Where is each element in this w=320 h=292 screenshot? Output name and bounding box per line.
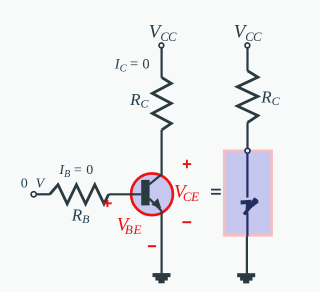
label IB = 0 xyxy=(58,163,93,180)
wire box to ground (right) xyxy=(246,237,248,274)
transistor Q1 collector lead xyxy=(149,174,161,184)
transistor Q1 emitter arrow xyxy=(151,198,161,208)
node VCC label (left) xyxy=(149,22,177,44)
label 0 V xyxy=(21,177,46,192)
label VCE xyxy=(174,182,199,204)
wire input to RB xyxy=(37,193,50,195)
minus sign at emitter xyxy=(148,245,156,247)
equals sign between circuits xyxy=(211,189,221,195)
terminal VCC (left) xyxy=(159,43,164,48)
wire VCC to RC (right) xyxy=(246,48,248,71)
open-switch box xyxy=(224,151,271,235)
svg-text:IB=0: IB=0 xyxy=(58,163,93,180)
wire RC to switch box xyxy=(246,122,248,149)
wire switch to box bottom xyxy=(246,213,248,237)
node at box top xyxy=(245,148,250,153)
resistor RC (right) xyxy=(237,71,258,123)
transistor Q1 emitter lead xyxy=(149,199,161,211)
resistor RB xyxy=(50,185,109,204)
label IC = 0 xyxy=(114,56,150,74)
open switch symbol xyxy=(241,199,257,215)
minus sign below VCE xyxy=(182,221,191,223)
ground (right) xyxy=(237,273,255,283)
transistor Q1 base bar xyxy=(141,180,149,206)
plus sign above VCE xyxy=(183,160,191,169)
wire RC to collector xyxy=(161,130,163,175)
plus sign at base xyxy=(103,200,112,207)
label RB xyxy=(71,205,90,226)
node VCC label (right) xyxy=(234,22,262,44)
resistor RC (left) xyxy=(152,78,171,130)
wire VCC to RC xyxy=(161,48,163,78)
svg-text:IC=0: IC=0 xyxy=(114,56,150,74)
wire node to switch xyxy=(246,153,248,197)
wire emitter to ground xyxy=(161,211,163,274)
ground (left) xyxy=(153,273,171,283)
label VBE xyxy=(117,214,142,236)
transistor Q1 circle xyxy=(131,173,173,215)
label RC (left) xyxy=(129,90,149,111)
input terminal xyxy=(31,192,36,197)
terminal VCC (right) xyxy=(245,43,250,48)
label RC (right) xyxy=(260,87,280,108)
wire RB to base xyxy=(109,193,142,195)
